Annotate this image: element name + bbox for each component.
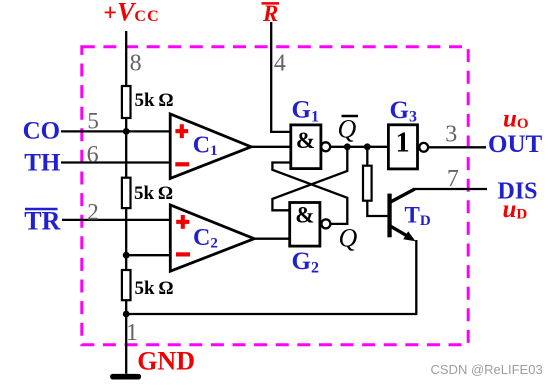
wire: transistor collector to DIS (pin 7) xyxy=(414,188,488,190)
wire: transistor emitter down and left to GND rail xyxy=(126,240,416,314)
svg-text:&: & xyxy=(296,128,315,153)
wire: divider mid-tap to C2 - input xyxy=(126,254,170,256)
svg-text:uO: uO xyxy=(503,106,529,133)
comparator C1 - input label xyxy=(175,162,189,166)
svg-text:+VCC: +VCC xyxy=(103,0,160,27)
svg-text:6: 6 xyxy=(87,142,99,168)
node: divider top tap junction (CO / C1 +) xyxy=(123,128,130,135)
wire: cross-coupling Qbar node to G2 upper input xyxy=(272,147,347,211)
NAND gate G1 (body) xyxy=(291,125,321,169)
label Qbar (latch output) xyxy=(338,115,359,144)
resistor R1 5k (top of divider) xyxy=(122,86,131,118)
node: Qbar junction to G2 feedback xyxy=(344,143,351,150)
svg-text:TR: TR xyxy=(24,207,60,236)
svg-text:1: 1 xyxy=(126,320,138,346)
IC package boundary (dashed box) xyxy=(82,47,468,345)
wire: CO input (pin 5) to C1 + input xyxy=(61,130,170,132)
svg-text:2: 2 xyxy=(87,199,99,224)
wire: G1 output node Qbar to G3 input xyxy=(330,146,388,148)
resistor R3 5k (bottom of divider) xyxy=(122,270,131,300)
svg-text:TH: TH xyxy=(24,150,61,177)
transistor TD emitter stroke with arrow xyxy=(391,226,416,241)
comparator C2 - input label xyxy=(176,252,190,256)
svg-text:3: 3 xyxy=(445,122,457,148)
wire: VCC/divider vertical rail (pin 8 to GND) xyxy=(125,31,127,374)
wire: TH input (pin 6) to C1 - input xyxy=(61,161,170,163)
resistor R4 (transistor base resistor) xyxy=(363,166,372,201)
resistor R2 5k (middle of divider) xyxy=(122,178,131,208)
svg-text:4: 4 xyxy=(274,50,286,76)
comparator C1 + input label xyxy=(175,124,188,138)
buffer gate G3 output bubble xyxy=(419,143,428,152)
buffer gate G3 (body) xyxy=(388,125,417,169)
wire: cross-coupling G2 output to G1 lower input xyxy=(272,163,347,224)
svg-text:5k Ω: 5k Ω xyxy=(135,90,174,111)
svg-text:CSDN @ReLIFE03: CSDN @ReLIFE03 xyxy=(431,362,543,377)
ground symbol xyxy=(110,374,141,380)
NAND gate G2 output bubble xyxy=(321,219,330,228)
node: Qbar junction to base resistor xyxy=(364,143,371,150)
svg-text:5k Ω: 5k Ω xyxy=(134,183,173,204)
comparator C2 + input label xyxy=(176,215,189,229)
NAND gate G1 output bubble xyxy=(321,142,330,151)
svg-text:5k Ω: 5k Ω xyxy=(135,278,174,299)
svg-text:G2: G2 xyxy=(292,248,319,276)
svg-text:5: 5 xyxy=(87,108,99,133)
svg-text:TD: TD xyxy=(405,202,431,228)
svg-text:G1: G1 xyxy=(292,97,319,126)
node: divider mid tap junction (C2 -) xyxy=(123,252,130,259)
svg-text:&: & xyxy=(295,203,314,228)
wire: G3 output to OUT (pin 3) xyxy=(428,146,486,148)
svg-text:1: 1 xyxy=(396,127,410,158)
node: divider bottom junction (GND rail) xyxy=(123,311,130,318)
wire: Qbar node down to base resistor and transistor base xyxy=(367,147,387,216)
comparator C1 (triangle) xyxy=(170,114,251,178)
comparator C2 (triangle) xyxy=(170,205,254,271)
svg-text:CO: CO xyxy=(23,118,61,145)
NAND gate G2 (body) xyxy=(290,203,320,247)
label R-bar (reset, pin 4) xyxy=(262,1,280,26)
wire: C2 output to G2 lower input xyxy=(254,238,290,240)
svg-text:G3: G3 xyxy=(390,97,417,125)
wire: R-bar (pin 4) down to G1 top input xyxy=(271,22,291,132)
svg-text:OUT: OUT xyxy=(488,131,543,158)
svg-text:8: 8 xyxy=(130,50,142,76)
svg-text:Q: Q xyxy=(339,224,358,253)
svg-text:7: 7 xyxy=(447,166,459,192)
svg-text:GND: GND xyxy=(137,346,195,375)
svg-text:Q: Q xyxy=(338,115,357,144)
wire: C1 output to G1 middle input xyxy=(251,146,291,148)
transistor TD collector stroke xyxy=(391,189,415,202)
transistor TD base bar xyxy=(387,194,391,238)
label TR-bar (trigger, pin 2) xyxy=(24,207,60,236)
wire: TR input (pin 2) to C2 + input xyxy=(62,219,170,221)
